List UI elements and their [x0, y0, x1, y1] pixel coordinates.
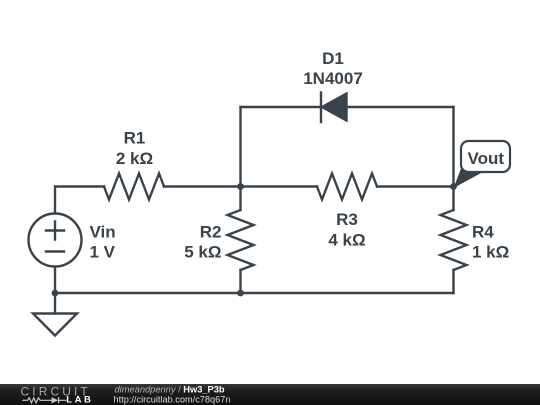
voltage source Vin circle — [29, 214, 82, 267]
svg-text:Vout: Vout — [468, 149, 505, 168]
wire D1 anode to right corner — [347, 106, 454, 108]
ground — [33, 314, 77, 336]
svg-text:R1: R1 — [124, 129, 146, 148]
junction Vin- / bottom rail — [52, 290, 59, 297]
wire diode branch left to D1 cathode — [241, 106, 321, 108]
svg-text:1 V: 1 V — [90, 243, 116, 262]
svg-text:http://circuitlab.com/c78q67n: http://circuitlab.com/c78q67n — [114, 395, 231, 405]
wire node A down to R2 top lead — [239, 187, 241, 211]
wire node A to R3 left lead — [241, 185, 318, 187]
diode D1 cathode bar — [320, 93, 322, 123]
node Vout flag pointer — [454, 169, 484, 189]
svg-text:Vin: Vin — [90, 222, 116, 241]
wire R2 bottom lead to bottom rail — [239, 270, 241, 293]
resistor R1 — [104, 174, 164, 200]
wire R1 right lead to node A — [164, 185, 241, 187]
svg-text:5 kΩ: 5 kΩ — [184, 243, 221, 262]
svg-text:R4: R4 — [472, 222, 494, 241]
junction R2 bottom / bottom rail — [237, 290, 244, 297]
resistor R4 — [441, 210, 467, 270]
wire ground stem — [54, 293, 56, 314]
svg-text:2 kΩ: 2 kΩ — [116, 149, 153, 168]
CircuitLab logo resistor-diode icon — [22, 397, 66, 403]
svg-text:LAB: LAB — [66, 395, 93, 405]
svg-text:D1: D1 — [322, 49, 344, 68]
resistor R2 — [228, 210, 254, 270]
svg-text:R2: R2 — [200, 222, 222, 241]
wire node A up to diode branch — [239, 107, 241, 187]
svg-text:1 kΩ: 1 kΩ — [472, 243, 509, 262]
svg-text:R3: R3 — [336, 210, 358, 229]
svg-text:4 kΩ: 4 kΩ — [328, 230, 365, 249]
wire Vin+ stub to R1 left lead — [55, 187, 104, 214]
wire node Vout down to R4 top lead — [452, 187, 454, 211]
wire bottom rail — [55, 292, 454, 294]
diode D1 triangle — [322, 94, 347, 121]
svg-text:dimeandpenny / Hw3_P3b: dimeandpenny / Hw3_P3b — [115, 384, 225, 394]
wire Vin- stub to bottom rail — [54, 267, 56, 294]
junction node Vout (R3/R4/diode branch) — [450, 183, 457, 190]
node Vout flag bubble — [461, 141, 510, 172]
resistor R3 — [317, 174, 377, 200]
wire R4 bottom lead to bottom rail corner — [452, 270, 454, 293]
junction node A (R1/R2/R3/diode branch) — [237, 183, 244, 190]
wire diode branch right down to node Vout — [452, 107, 454, 187]
wire R3 right lead to node Vout — [377, 185, 454, 187]
svg-text:1N4007: 1N4007 — [303, 69, 363, 88]
voltage source minus sign — [46, 250, 64, 252]
voltage source plus sign — [46, 222, 64, 240]
